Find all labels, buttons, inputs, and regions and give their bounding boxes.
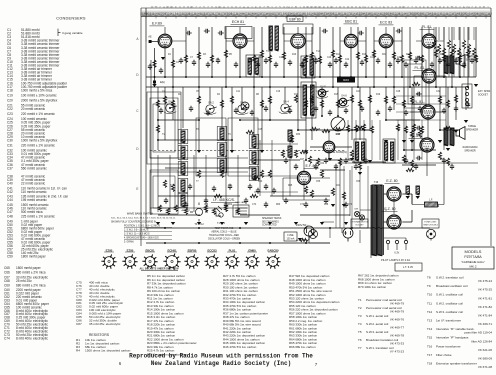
svg-text:ALL SOCKETS UNDER SIDE VIEW: ALL SOCKETS UNDER SIDE VIEW: [139, 267, 179, 270]
svg-text:VK 475-24: VK 475-24: [478, 279, 493, 283]
svg-text:C23: C23: [7, 112, 13, 116]
svg-text:R58: R58: [324, 204, 329, 206]
svg-text:T10: T10: [427, 293, 433, 297]
mid column extra verticals: [347, 120, 349, 160]
svg-text:CONDENSERS: CONDENSERS: [56, 16, 86, 21]
svg-text:S4.2: S4.2: [208, 100, 214, 104]
tube V8 PL81-3: [421, 105, 435, 119]
svg-text:I.F. 455 KC/S.: I.F. 455 KC/S.: [213, 198, 235, 202]
svg-text:C24: C24: [356, 91, 361, 93]
svg-text:195 mmfd ceramic: 195 mmfd ceramic: [21, 198, 47, 202]
svg-text:TEST POINT AND: TEST POINT AND: [215, 227, 234, 230]
wafer switch S4.2: [204, 105, 217, 115]
svg-text:S4.4: S4.4: [283, 99, 289, 103]
svg-text:C45: C45: [258, 129, 263, 131]
extra verticals left low: [157, 155, 159, 212]
svg-text:R33: R33: [296, 134, 301, 136]
svg-text:110 mmfd ceramic: 110 mmfd ceramic: [21, 190, 47, 194]
volume pot R37: [331, 117, 345, 131]
svg-text:1st I.F. transformer: 1st I.F. transformer: [436, 319, 461, 323]
tube V1 EF89: [158, 34, 172, 48]
schematic frame left border: [140, 8, 142, 246]
svg-text:VK 471-82: VK 471-82: [478, 305, 493, 309]
svg-text:CONNECTED: CONNECTED: [262, 225, 277, 227]
svg-text:S4.1, S4.2, S4.3, S4.4, S4.5,: S4.1, S4.2, S4.3, S4.4, S4.5, S4.6, S4.7…: [111, 218, 176, 220]
svg-text:T12: T12: [427, 310, 433, 314]
svg-text:C69: C69: [4, 283, 10, 287]
svg-text:C32: C32: [436, 91, 441, 93]
svg-text:C59: C59: [7, 255, 13, 259]
tube V7 PL81-2: [422, 69, 436, 83]
svg-text:Power transformer: Power transformer: [436, 344, 461, 348]
svg-text:VK 680-09: VK 680-09: [478, 357, 493, 361]
mid bottom extra: [259, 140, 261, 196]
svg-text:C87: C87: [76, 322, 82, 326]
dial band tint: [141, 11, 491, 16]
svg-text:EBC 81: EBC 81: [345, 20, 357, 24]
tube V5 ECC83: [379, 34, 393, 48]
svg-text:FUSE: FUSE: [287, 235, 294, 237]
svg-text:C74: C74: [4, 336, 10, 340]
svg-text:35 mfd 25v. electrolytic: 35 mfd 25v. electrolytic: [89, 322, 121, 326]
svg-text:P.L.81₁: P.L.81₁: [422, 25, 434, 29]
svg-text:S.W.1. oscillator coil: S.W.1. oscillator coil: [436, 293, 463, 297]
svg-text:J: J: [335, 7, 336, 9]
svg-text:L.P./GRAM MOTOR: L.P./GRAM MOTOR: [351, 221, 369, 224]
svg-text:S4.1: S4.1: [168, 99, 174, 103]
svg-text:TRANSLATOR COILS—RED: TRANSLATOR COILS—RED: [209, 234, 239, 237]
svg-text:2000 mmfd ± 5% styroflex: 2000 mmfd ± 5% styroflex: [21, 98, 58, 102]
svg-text:T5: T5: [358, 330, 362, 334]
svg-text:PILOT LAMPS 6.3V 0.3A: PILOT LAMPS 6.3V 0.3A: [381, 258, 410, 262]
power transformer T16: [372, 185, 377, 256]
svg-text:C41: C41: [258, 57, 263, 59]
ground symbols: [161, 57, 165, 60]
svg-text:VK 469-78: VK 469-78: [390, 334, 405, 338]
left margin verticals: [146, 42, 151, 229]
oscillator coupling coils: [269, 26, 272, 51]
HT rail bottom: [146, 227, 430, 229]
svg-text:E.Z. 80: E.Z. 80: [386, 179, 397, 183]
EM80/EF80 region wiring: [283, 130, 330, 200]
EBF80 label loop: [283, 24, 313, 34]
svg-text:New Zealand Vintage Radio Soci: New Zealand Vintage Radio Society (Inc): [151, 360, 291, 367]
gram motor socket box: [351, 219, 368, 228]
svg-text:RESISTORS: RESISTORS: [89, 333, 110, 337]
lower horizontal links: [158, 119, 199, 121]
svg-text:240V.50∼: 240V.50∼: [296, 223, 309, 227]
svg-text:R44: R44: [416, 134, 421, 136]
wafer switch S4.4: [279, 104, 292, 114]
left low resistors: [158, 205, 161, 211]
svg-text:C26: C26: [370, 57, 375, 59]
ext speaker terminals: [462, 84, 472, 108]
svg-text:T17: T17: [427, 353, 433, 357]
svg-text:R60: R60: [276, 204, 281, 206]
svg-text:C65: C65: [4, 266, 10, 270]
svg-text:VK 671-08: VK 671-08: [478, 365, 493, 369]
ECH81 label loop: [225, 27, 252, 39]
tube side stubs: [172, 40, 444, 42]
svg-text:C66: C66: [408, 163, 413, 165]
table speaker bottom: [456, 127, 465, 140]
filter cap cans: [406, 186, 409, 195]
svg-text:L.F.: L.F.: [429, 200, 433, 202]
transformer secondary terminals: [386, 240, 389, 243]
svg-text:20 mmfd ceramic: 20 mmfd ceramic: [21, 107, 46, 111]
svg-text:T1→T5: T1→T5: [217, 222, 226, 225]
svg-text:SPEAKER: SPEAKER: [464, 150, 476, 153]
svg-text:1000 mmfd ± 5% styroflex: 1000 mmfd ± 5% styroflex: [21, 138, 58, 142]
svg-text:J: J: [367, 7, 368, 9]
trimmer tool symbol: [216, 206, 223, 217]
svg-text:A.C. ONLY: A.C. ONLY: [296, 238, 310, 242]
svg-text:VK 469-79: VK 469-79: [390, 302, 405, 306]
svg-text:AE: AE: [148, 36, 152, 39]
svg-text:4. BROADCAST 540—1600 KC/S: 4. BROADCAST 540—1600 KC/S: [124, 237, 159, 240]
svg-text:R4: R4: [76, 349, 80, 353]
svg-text:VK 471-81: VK 471-81: [478, 296, 493, 300]
svg-text:225 mmfd ± 1% ceramic: 225 mmfd ± 1% ceramic: [21, 215, 55, 219]
svg-text:VK 621-06: VK 621-06: [478, 348, 493, 352]
wafer switch S4.6: [337, 98, 350, 107]
svg-text:C52: C52: [396, 129, 401, 131]
table speaker top: [456, 55, 465, 68]
svg-text:R25: R25: [416, 94, 421, 96]
extra caps top mid: [186, 31, 192, 35]
svg-text:pass filter AD 119-04: pass filter AD 119-04: [464, 331, 492, 335]
svg-text:680 mmfd ± 2% mica: 680 mmfd ± 2% mica: [16, 283, 46, 287]
svg-text:T15: T15: [427, 336, 433, 340]
power area verticals: [335, 166, 337, 228]
svg-text:C40: C40: [7, 182, 13, 186]
svg-text:C43: C43: [309, 57, 314, 59]
tube V2 ECH81: [233, 34, 247, 48]
models label box: [452, 247, 494, 269]
aerial coil stack T1-T5: [181, 131, 185, 143]
svg-text:3 gang variable: 3 gang variable: [62, 31, 83, 35]
svg-text:R18: R18: [362, 54, 367, 56]
svg-text:R70 100k 1w. carbon: R70 100k 1w. carbon: [358, 285, 387, 289]
svg-text:C44: C44: [7, 198, 13, 202]
aerial input: [149, 40, 152, 43]
svg-text:ECH 81: ECH 81: [232, 20, 244, 24]
svg-text:500 mmfd mica: 500 mmfd mica: [21, 210, 43, 214]
svg-text:C19: C19: [316, 91, 321, 93]
svg-text:T8: T8: [427, 276, 431, 280]
output coupling caps: [416, 56, 422, 60]
svg-text:E.F.89: E.F.89: [152, 22, 162, 26]
alignment trimmer symbol: [190, 203, 208, 222]
svg-text:VY 473-23: VY 473-23: [390, 350, 404, 354]
svg-text:TONE CONT.: TONE CONT.: [424, 222, 437, 224]
tube V4 EBC81: [344, 34, 357, 47]
bottom bus line: [146, 242, 330, 244]
svg-text:3. S.W.3. 11—18.5 MC/S: 3. S.W.3. 11—18.5 MC/S: [124, 234, 150, 236]
svg-text:560 mmfd ceramic: 560 mmfd ceramic: [21, 166, 47, 170]
capacitors scatter: [148, 64, 152, 70]
junction dots: [164, 76, 166, 78]
ground bus: [146, 86, 466, 88]
svg-text:T16: T16: [427, 344, 433, 348]
svg-text:2. S.W.2. 9.5—25 MC/S: 2. S.W.2. 9.5—25 MC/S: [124, 230, 149, 232]
IF transformer T14: [301, 56, 315, 78]
svg-text:S.W.2. oscillator coil: S.W.2. oscillator coil: [436, 301, 463, 305]
wafer switch S4.3: [236, 105, 249, 115]
svg-text:25 mfd 25v.: 25 mfd 25v.: [16, 279, 32, 283]
svg-text:SPEAKER: SPEAKER: [466, 128, 478, 132]
svg-text:R21: R21: [382, 54, 387, 56]
svg-text:T2: T2: [358, 306, 362, 310]
svg-text:150 mA: 150 mA: [287, 238, 295, 241]
svg-text:C18: C18: [7, 88, 13, 92]
plan view socket: [309, 230, 318, 239]
svg-text:C37: C37: [7, 166, 13, 170]
svg-text:T14: T14: [427, 327, 433, 331]
svg-text:C66: C66: [4, 271, 10, 275]
svg-text:Broadcast oscillator coil: Broadcast oscillator coil: [436, 284, 468, 288]
svg-text:VK 475-25: VK 475-25: [478, 288, 493, 292]
svg-text:R35: R35: [288, 185, 293, 187]
svg-text:EBF 80: EBF 80: [289, 17, 300, 21]
svg-text:S.W.2. translator coil: S.W.2. translator coil: [436, 276, 464, 280]
svg-text:R19: R19: [376, 94, 381, 96]
svg-text:C50: C50: [258, 181, 263, 183]
svg-text:1800 mmfd paper: 1800 mmfd paper: [16, 266, 41, 270]
mains plug 2: [343, 228, 353, 242]
svg-text:R38: R38: [336, 134, 341, 136]
svg-text:1000 mmfd ± 5% mica: 1000 mmfd ± 5% mica: [21, 88, 52, 92]
svg-text:Filter choke: Filter choke: [436, 353, 452, 357]
svg-text:5. GRAM.: 5. GRAM.: [124, 241, 134, 244]
tube V10 EM80 tuning indicator: [323, 141, 335, 153]
svg-text:C68: C68: [4, 279, 10, 283]
PL81 cathode wiring: [410, 48, 446, 176]
wafer switch S4.1: [164, 104, 177, 114]
svg-text:C70: C70: [348, 204, 353, 206]
svg-text:C55: C55: [316, 181, 321, 183]
svg-text:VK 469-77: VK 469-77: [390, 326, 405, 330]
svg-text:TABLE: TABLE: [468, 124, 476, 128]
svg-text:MODELS: MODELS: [465, 249, 482, 254]
svg-text:R10: R10: [292, 54, 297, 56]
svg-text:Extension speaker transformer: Extension speaker transformer: [436, 362, 477, 366]
tube V6 PL81: [422, 34, 436, 48]
svg-text:S4.5: S4.5: [320, 85, 326, 89]
speaker output transformer bottom: [444, 128, 448, 146]
rectifier wiring: [384, 194, 413, 222]
svg-text:E(E): E(E): [160, 81, 165, 84]
svg-text:SECONDARIES: SECONDARIES: [262, 220, 279, 223]
IF transformer T15a tall: [301, 82, 316, 118]
svg-text:1800 mmfd paper: 1800 mmfd paper: [21, 255, 46, 259]
svg-text:C22: C22: [7, 107, 13, 111]
gram input jack circles: [241, 102, 249, 110]
svg-text:6.3V.: 6.3V.: [394, 253, 400, 255]
svg-text:P.L.81₂: P.L.81₂: [414, 66, 426, 70]
pilot lamps: [354, 211, 359, 216]
svg-text:SHOWN FULLY COUNTERCLOCKWISE I: SHOWN FULLY COUNTERCLOCKWISE IN: [111, 222, 156, 224]
vertical wire trunks: [154, 48, 156, 87]
extra resistors output stage: [346, 125, 349, 132]
svg-text:T4: T4: [358, 322, 362, 326]
svg-text:C58: C58: [356, 181, 361, 183]
svg-text:J: J: [299, 7, 300, 9]
tube V3 EBF80: [291, 34, 305, 48]
svg-text:T16: T16: [374, 180, 379, 184]
svg-text:P.L.81₃: P.L.81₃: [413, 100, 425, 104]
svg-text:220 mmfd ± 1% ceramic: 220 mmfd ± 1% ceramic: [21, 144, 55, 148]
svg-text:C48: C48: [316, 129, 321, 131]
speaker output transformer top: [444, 56, 448, 74]
svg-text:PZ977A/8A: PZ977A/8A: [464, 255, 482, 259]
svg-text:C19: C19: [7, 93, 13, 97]
svg-text:AERIAL COILS — BLUE: AERIAL COILS — BLUE: [211, 231, 237, 234]
power area wiring: [309, 160, 394, 243]
svg-text:R55: R55: [440, 159, 445, 161]
translator coil stack: [252, 136, 256, 148]
svg-text:C31: C31: [7, 144, 13, 148]
svg-text:C72: C72: [300, 204, 305, 206]
svg-text:SOCKET: SOCKET: [478, 94, 488, 97]
svg-text:8 mfd 400v. electrolytic: 8 mfd 400v. electrolytic: [16, 336, 48, 340]
volume control black box: [337, 77, 355, 83]
svg-text:R24: R24: [406, 54, 411, 56]
svg-text:C30: C30: [7, 138, 13, 142]
svg-text:T9: T9: [427, 284, 431, 288]
mains plug 240V: [304, 226, 314, 240]
svg-text:R23: R23: [343, 78, 349, 82]
svg-text:C14: C14: [279, 57, 284, 59]
schematic frame right border: [490, 8, 492, 246]
svg-text:S.W.3. oscillator coil: S.W.3. oscillator coil: [436, 310, 463, 314]
svg-text:R27: R27: [440, 54, 445, 56]
svg-text:C74: C74: [252, 204, 257, 206]
svg-text:OSCILLATOR COILS—GREEN: OSCILLATOR COILS—GREEN: [208, 238, 241, 241]
svg-text:R15: R15: [334, 94, 339, 96]
heater wiring bottom: [322, 222, 334, 238]
svg-text:VK 469-71: VK 469-71: [478, 322, 493, 326]
svg-text:R51: R51: [348, 159, 353, 161]
svg-text:1500 ohms 1w. deposited carbon: 1500 ohms 1w. deposited carbon: [85, 349, 131, 353]
svg-text:T3: T3: [358, 314, 362, 318]
svg-text:R62: R62: [228, 204, 233, 206]
svg-text:R46 470k 5% 1w. carbon: R46 470k 5% 1w. carbon: [223, 345, 257, 349]
svg-text:R41: R41: [336, 185, 341, 187]
nested wiring loops: [150, 98, 178, 158]
svg-text:filter AD 126-84: filter AD 126-84: [471, 339, 492, 343]
svg-text:R47: R47: [300, 159, 305, 161]
svg-text:MK.2: MK.2: [469, 265, 476, 269]
svg-text:C22: C22: [345, 59, 350, 61]
svg-text:C20: C20: [327, 57, 332, 59]
svg-text:R66 68k 1w. carbon: R66 68k 1w. carbon: [289, 345, 316, 349]
IF transformer T13: [246, 55, 260, 77]
coil stack 4: [288, 130, 292, 142]
svg-text:T1: T1: [358, 298, 362, 302]
svg-text:C30: C30: [397, 57, 402, 59]
dial scale strip: [141, 7, 491, 9]
tube V13 EZ80 rectifier 2: [387, 215, 401, 229]
svg-text:T11: T11: [427, 301, 432, 305]
svg-text:R14: R14: [336, 54, 341, 56]
AVC bus: [146, 76, 476, 78]
dial light assembly box: [233, 205, 249, 217]
oscillator coil stack: [220, 128, 224, 140]
svg-text:SPEAKER TRANS.: SPEAKER TRANS.: [262, 217, 282, 220]
svg-text:E: E: [136, 187, 138, 191]
svg-text:T7: T7: [358, 346, 362, 350]
svg-text:VK 471-84: VK 471-84: [478, 314, 493, 318]
svg-text:C62: C62: [320, 163, 325, 165]
svg-text:T6: T6: [358, 338, 362, 342]
svg-text:C35: C35: [449, 57, 454, 59]
svg-text:22 mmfd ceramic: 22 mmfd ceramic: [21, 182, 46, 186]
svg-text:C28: C28: [396, 91, 401, 93]
degenerate feedback loop right: [404, 60, 426, 108]
IF transformer T15: [354, 139, 366, 163]
gang dashed line: [150, 150, 345, 152]
svg-text:S.W.1. aerial coil: S.W.1. aerial coil: [366, 314, 389, 318]
svg-text:C37: C37: [467, 57, 472, 59]
left low horizontals: [150, 157, 248, 159]
svg-text:WAVE BAND SWITCH: WAVE BAND SWITCH: [127, 212, 153, 216]
svg-text:C42: C42: [7, 190, 13, 194]
svg-text:T6→T12: T6→T12: [194, 223, 204, 226]
svg-text:S4.6: S4.6: [341, 94, 347, 98]
svg-text:100 mmfd ± 10% ceramic: 100 mmfd ± 10% ceramic: [21, 93, 57, 97]
svg-text:S.W.2. aerial coil: S.W.2. aerial coil: [366, 322, 389, 326]
svg-text:C16: C16: [276, 91, 281, 93]
svg-text:C76: C76: [204, 204, 209, 206]
svg-text:S.W.3. aerial coil: S.W.3. aerial coil: [366, 330, 389, 334]
svg-text:C48: C48: [7, 215, 13, 219]
svg-text:L.T. 6.3V: L.T. 6.3V: [403, 265, 414, 269]
svg-text:C20: C20: [7, 98, 13, 102]
tone control switch box: [422, 219, 439, 228]
top-right resistor cluster: [432, 40, 435, 49]
svg-text:ECC 83: ECC 83: [380, 21, 392, 25]
plate cap wires above tubes: [165, 27, 429, 34]
horizontal resistors: [246, 130, 254, 133]
resistors upper section: [153, 60, 156, 68]
svg-text:220 mmfd ± 1% ceramic: 220 mmfd ± 1% ceramic: [21, 112, 55, 116]
ratio detector coils: [383, 139, 395, 163]
svg-text:VK 473-33: VK 473-33: [390, 342, 405, 346]
tube V12 EZ80 rectifier: [387, 187, 401, 201]
svg-text:Intervalve “IF” bandpass: Intervalve “IF” bandpass: [436, 336, 469, 340]
EM80 wiring: [310, 147, 352, 160]
low mills box: [284, 232, 297, 241]
tube V9 PL81-4: [420, 138, 434, 152]
svg-text:“CARNEGIE HALL”: “CARNEGIE HALL”: [461, 260, 485, 264]
svg-text:DIAL LAMP: DIAL LAMP: [235, 201, 247, 204]
svg-text:Reproduced by Radio Museum wit: Reproduced by Radio Museum with permissi…: [129, 353, 313, 360]
bottom mid caps/resistors: [248, 184, 252, 190]
svg-text:POSITION 1. S.W.1. 4.8—: POSITION 1. S.W.1. 4.8—12 MC/S: [124, 226, 160, 228]
svg-text:SWITCH S.W.4: SWITCH S.W.4: [423, 225, 438, 227]
svg-text:C47: C47: [7, 210, 13, 214]
wafer switch S4.5: [316, 89, 329, 98]
tone switch plan socket: [426, 229, 435, 240]
svg-text:T18: T18: [427, 362, 433, 366]
tube V11 EF80: [297, 171, 310, 184]
svg-text:R30: R30: [458, 54, 463, 56]
svg-text:C33: C33: [415, 57, 420, 59]
svg-text:T13: T13: [427, 319, 433, 323]
filter choke T17: [425, 202, 438, 207]
right mid horizontals: [396, 95, 446, 97]
